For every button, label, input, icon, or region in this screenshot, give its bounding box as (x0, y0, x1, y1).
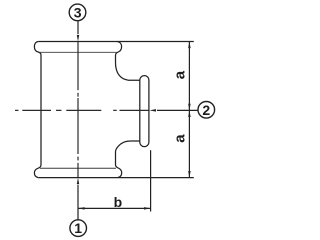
svg-text:a: a (171, 70, 188, 79)
dimension line a-a (vertical at right) (188, 42, 191, 178)
bottom face line with extension to dimension line (38, 177, 194, 179)
svg-text:1: 1 (74, 220, 82, 236)
tee body left outline with end bands (34, 42, 41, 178)
callout circle 2 (198, 102, 215, 119)
bottom band inner edge (40, 167, 116, 169)
horizontal centerline (dash-dot) (15, 109, 149, 111)
vertical centerline (dash-dot) (77, 42, 79, 178)
leader from circle 1 with arrow to bottom face (77, 178, 80, 220)
callout circle 3 (69, 4, 86, 21)
extension line for b at branch face (150, 150, 152, 211)
svg-text:b: b (114, 194, 123, 210)
dimension line b (horizontal at bottom) (78, 207, 151, 210)
leader from circle 3 with arrow to top face (77, 21, 80, 41)
leader from circle 2 with arrow to branch face (149, 109, 197, 112)
svg-text:2: 2 (202, 102, 210, 118)
tee body right outline lower (branch bottom fillet, wall, band cap) (116, 141, 140, 178)
branch collar bead (140, 76, 149, 147)
callout circle 1 (70, 220, 87, 237)
svg-text:a: a (171, 134, 188, 143)
svg-text:3: 3 (74, 4, 82, 20)
tee body right outline upper (band cap, wall, branch top fillet) (116, 42, 140, 81)
top face line with extension to dimension line (38, 41, 194, 43)
top band inner edge (40, 51, 117, 53)
